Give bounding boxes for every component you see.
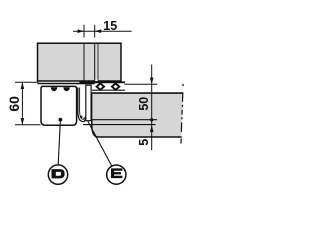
svg-text:60: 60: [6, 96, 22, 112]
svg-text:15: 15: [103, 19, 117, 33]
svg-text:5: 5: [137, 139, 151, 146]
svg-text:50: 50: [137, 97, 151, 111]
